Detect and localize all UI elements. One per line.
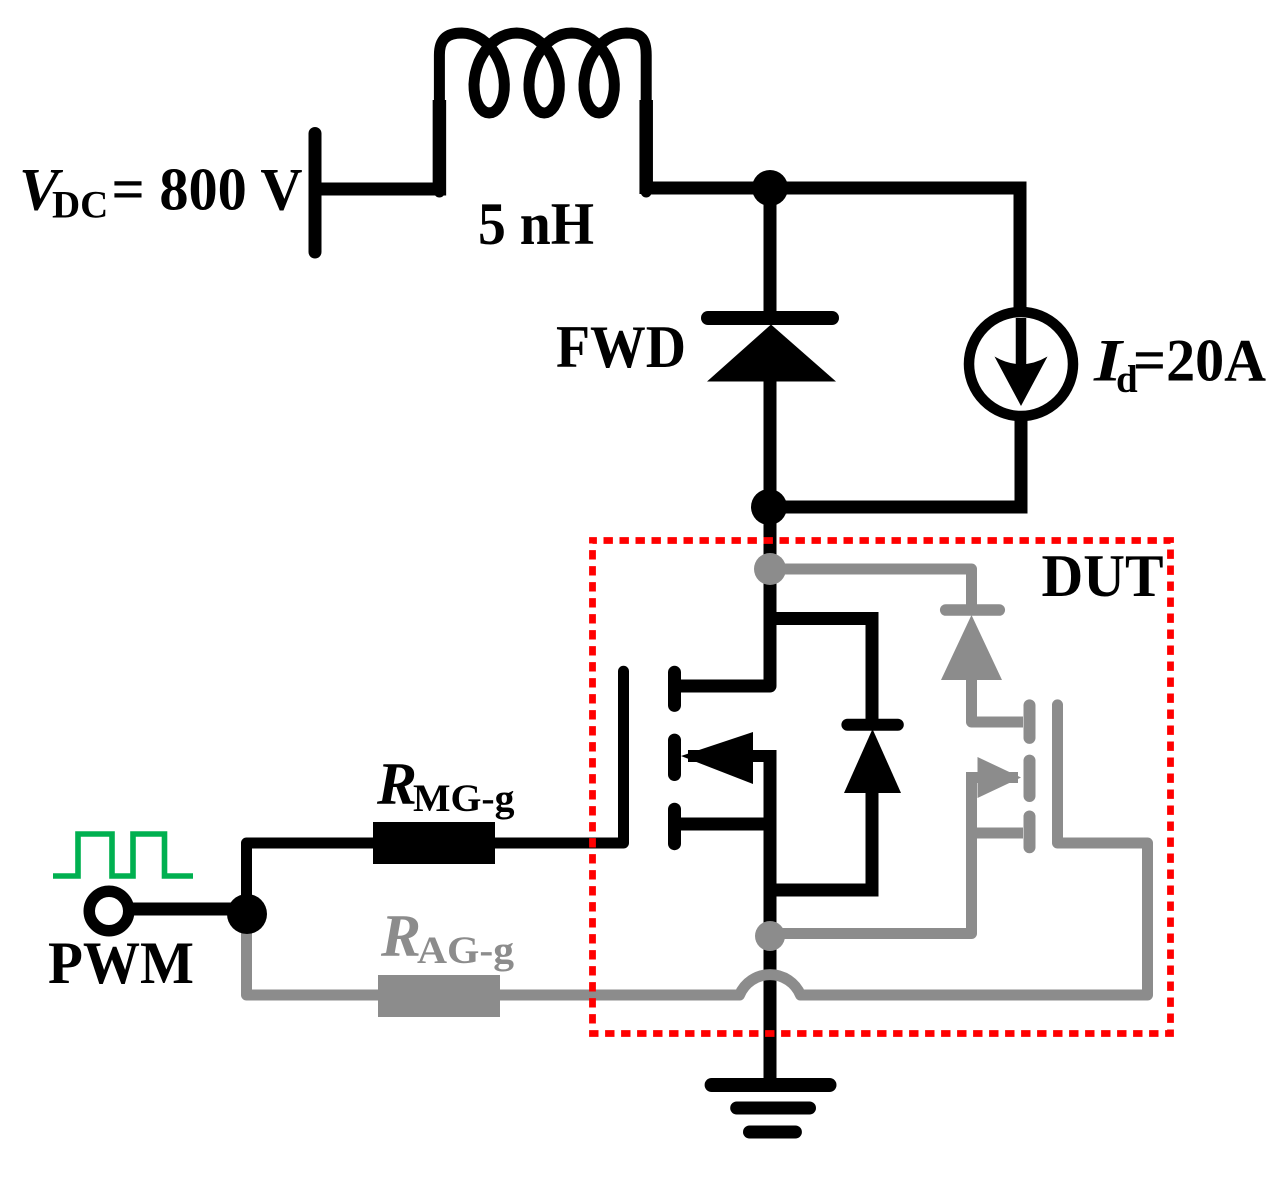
wire N1 down to FWD cathode <box>764 188 777 324</box>
node N2 <box>751 489 787 525</box>
body diode D1 cathode bar <box>847 719 897 731</box>
voltage source VDC terminal bar <box>309 134 322 253</box>
MOSFET M2 channel bottom dash <box>1024 817 1036 848</box>
svg-text:AG-g: AG-g <box>417 929 515 972</box>
svg-text:=20A: =20A <box>1133 328 1266 394</box>
svg-text:R: R <box>376 751 417 817</box>
svg-text:= 800 V: = 800 V <box>112 157 303 223</box>
diode FWD cathode bar <box>708 311 832 325</box>
node N1 <box>752 170 788 206</box>
gray node G1 on drain line <box>754 553 786 585</box>
svg-text:R: R <box>380 903 421 969</box>
current source Id circle <box>969 312 1073 416</box>
aux diode anode to MOSFET M2 drain stub <box>972 676 1024 722</box>
wire body diode anode to source line <box>770 789 872 890</box>
MOSFET M1 channel bottom dash <box>668 809 681 844</box>
DUT box red dashed <box>593 541 1171 1034</box>
MOSFET M1 body arrow <box>688 750 770 762</box>
junction node J1 <box>227 894 267 934</box>
MOSFET M2 channel top dash <box>1024 705 1036 738</box>
MOSFET M2 channel mid dash <box>1024 761 1036 796</box>
aux diode D2 cathode bar <box>946 604 1000 616</box>
wire inductor right lead <box>639 100 653 194</box>
aux diode D2 triangle <box>941 615 1002 680</box>
wire current source to node N2 <box>766 415 1021 507</box>
svg-text:PWM: PWM <box>48 930 194 996</box>
ground bar 2 <box>737 1102 810 1115</box>
wire PWM terminal to junction <box>125 903 250 916</box>
MOSFET M1 gate bar and gate wire to RMG-g and PWM junction <box>247 671 624 914</box>
svg-text:DC: DC <box>52 184 108 227</box>
diode FWD triangle <box>707 325 836 382</box>
wire VDC to inductor <box>318 183 441 196</box>
MOSFET M1 source stub <box>672 818 770 831</box>
inductor L1 5nH coil <box>439 33 646 192</box>
svg-text:DUT: DUT <box>1042 543 1164 609</box>
MOSFET M2 source stub <box>972 828 1024 839</box>
wire M2 source down to kelvin node G2 <box>775 772 972 934</box>
wire N2 down to MOSFET M1 drain stub <box>672 507 770 686</box>
MOSFET M2 body arrow <box>977 772 1018 783</box>
PWM terminal circle <box>89 891 129 931</box>
resistor RAG-g body <box>378 975 500 1017</box>
svg-text:5 nH: 5 nH <box>478 191 594 257</box>
PWM waveform <box>53 834 193 876</box>
MOSFET M1 channel top dash <box>668 672 681 705</box>
wire drain branch to body diode D1 <box>770 619 872 729</box>
gray wire G1 to aux diode D2 <box>770 569 972 612</box>
svg-text:FWD: FWD <box>556 314 686 380</box>
svg-text:MG-g: MG-g <box>413 777 515 820</box>
MOSFET M1 channel mid dash <box>668 740 681 774</box>
wire FWD anode to node N2 <box>764 370 777 510</box>
ground bar 3 <box>750 1126 796 1139</box>
wire inductor to node N1 and down to current source <box>644 188 1020 316</box>
body diode D1 triangle <box>844 729 901 793</box>
ground bar 1 <box>712 1078 830 1092</box>
current source arrow <box>1016 318 1027 368</box>
wire M1 source down to ground <box>764 750 777 1085</box>
MOSFET M2 gate bar and gate wire loop to RAG-g and PWM junction <box>247 705 1148 995</box>
wire inductor left lead <box>433 100 447 196</box>
gray node G2 kelvin source <box>755 921 785 951</box>
resistor RMG-g body <box>373 822 495 864</box>
